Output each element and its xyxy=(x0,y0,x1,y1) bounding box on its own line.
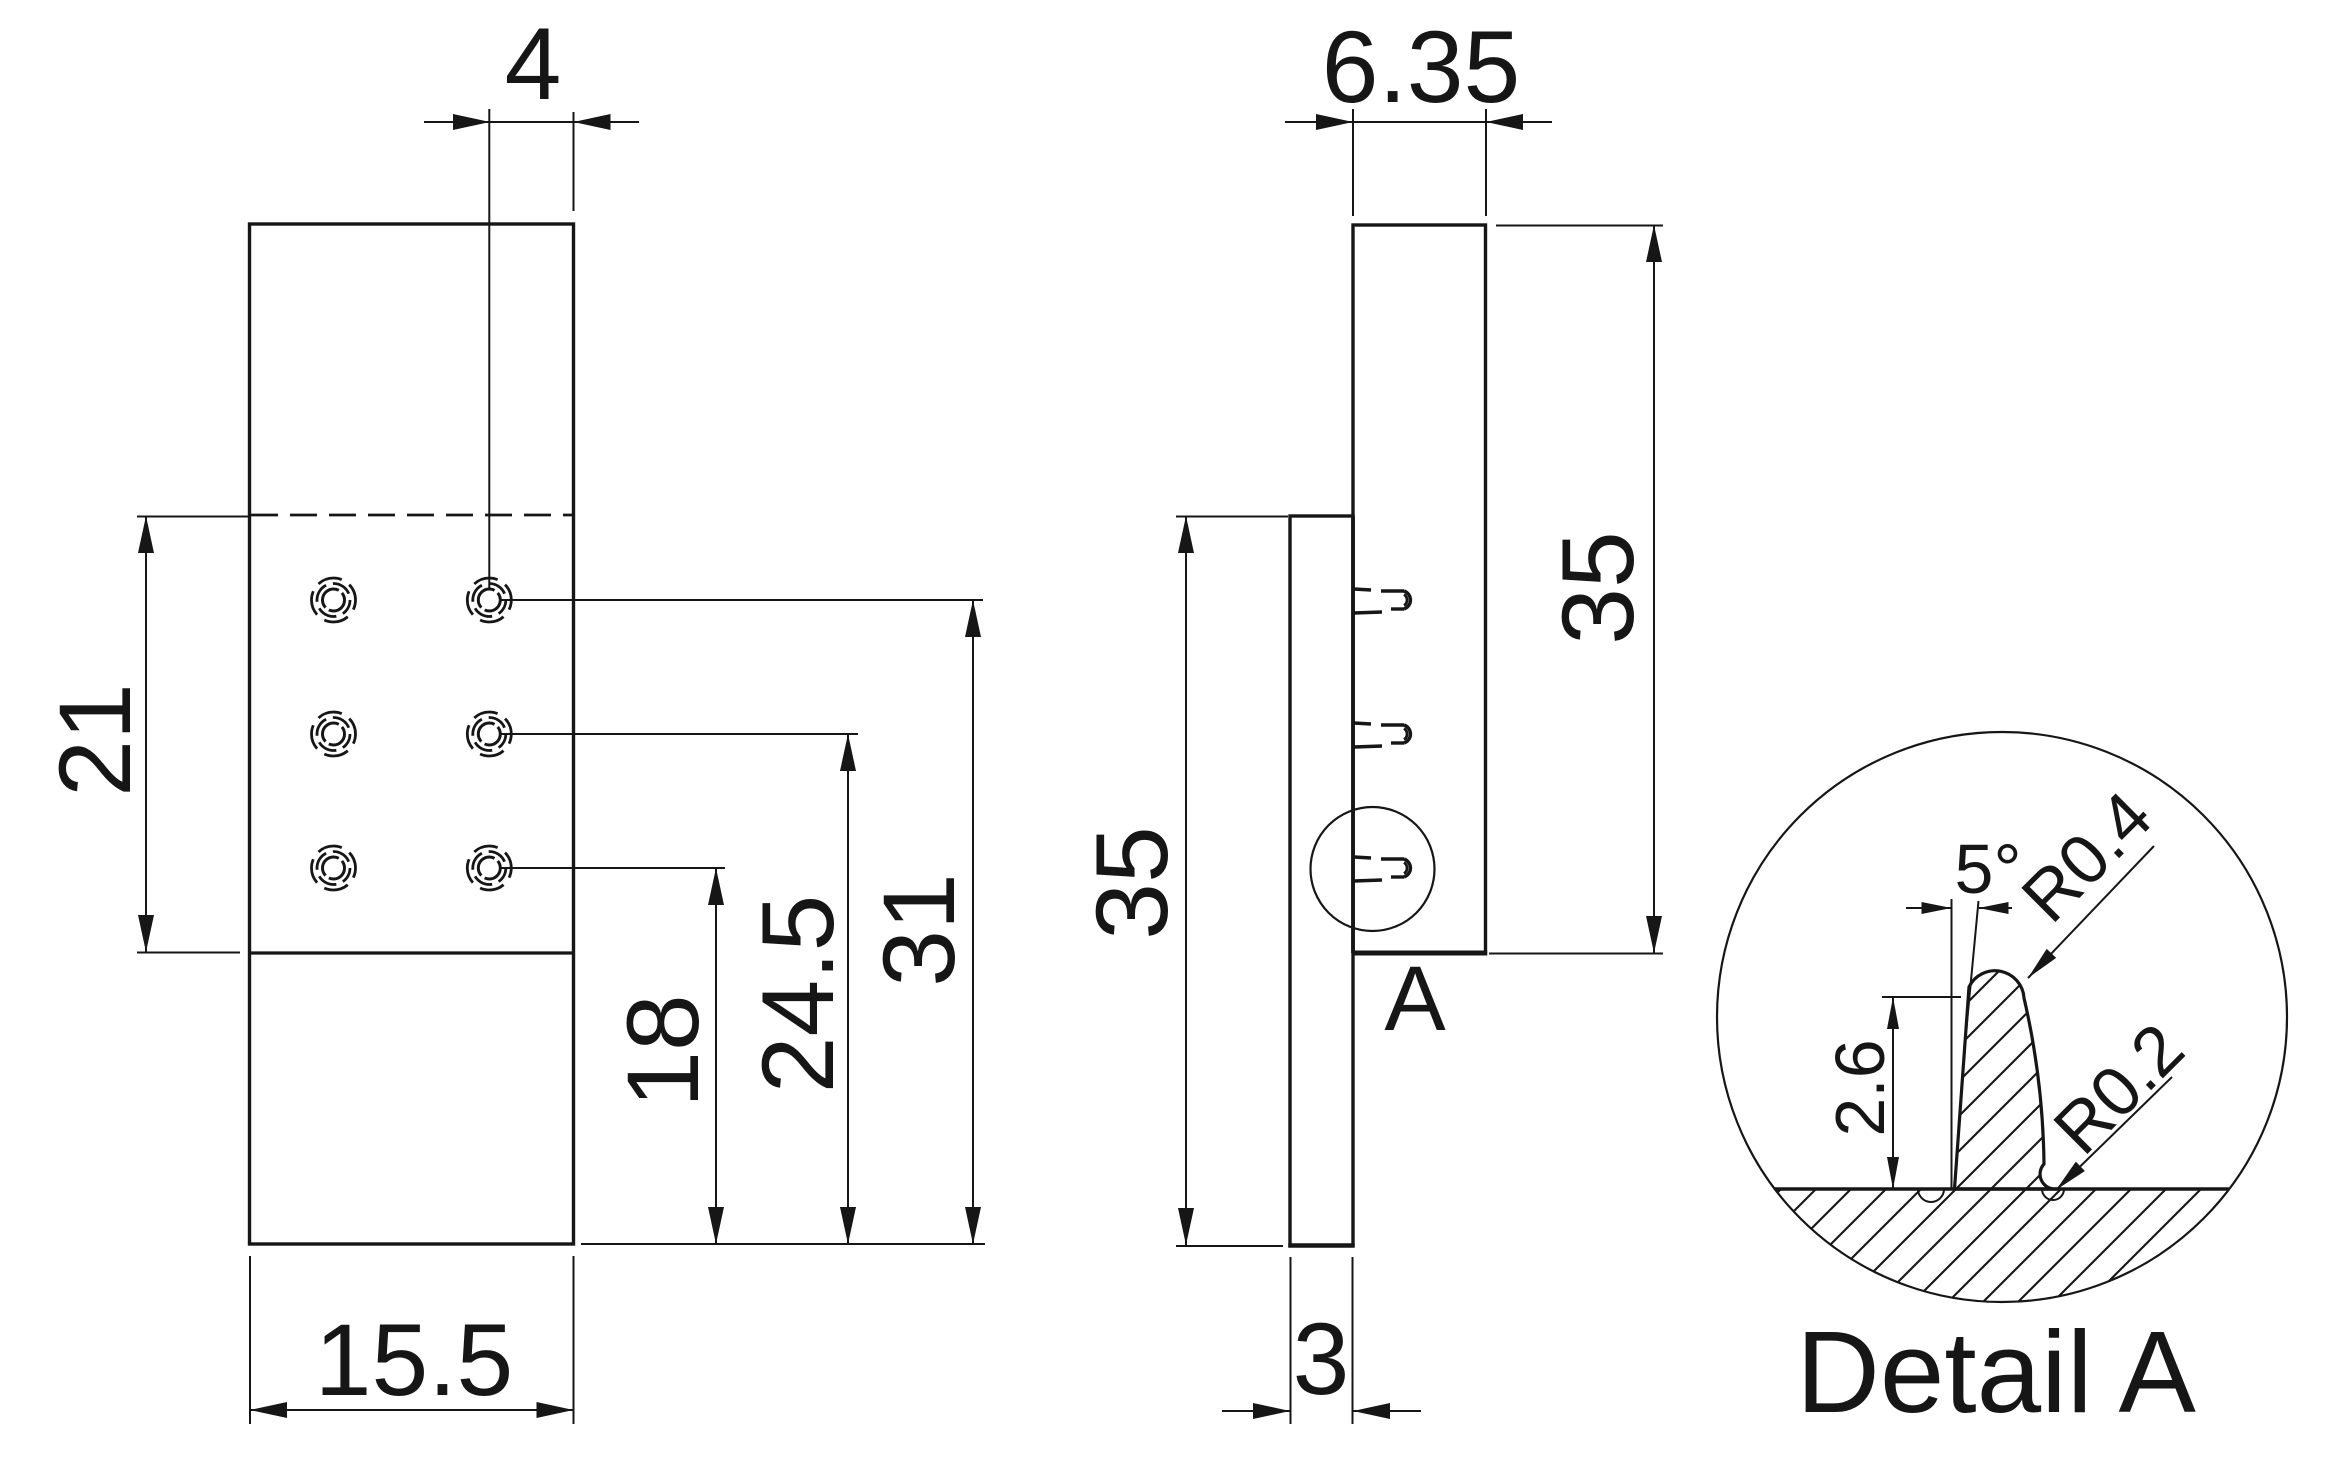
leader R0.4: line and arrow xyxy=(2028,846,2154,978)
dimension 2.6: extension line xyxy=(1882,996,1961,998)
left view: visible edge (bottom of slotted plate) xyxy=(251,951,572,954)
side view: slotted plate (6.35 thick) outline xyxy=(1353,225,1486,953)
hole H3 (row2 col1) xyxy=(312,712,356,756)
svg-text:4: 4 xyxy=(505,7,562,121)
detail A: base fillet bump left xyxy=(1918,1189,1944,1202)
svg-text:5°: 5° xyxy=(1955,830,2022,908)
dimension 15.5: extension lines xyxy=(250,1256,574,1424)
detail A: tooth profile outline xyxy=(1955,971,2058,1189)
leader R0.2: text xyxy=(2039,1009,2199,1169)
svg-text:35: 35 xyxy=(1541,531,1655,644)
hole H5 (row3 col1) xyxy=(312,846,356,890)
detail label A xyxy=(1384,948,1446,1050)
dimension 35 right: text xyxy=(1541,531,1655,644)
hole H2 (row1 col2) xyxy=(467,578,511,622)
dimension 2.6: line and arrows xyxy=(1887,997,1899,1189)
dimension 3: text xyxy=(1293,1302,1350,1416)
dimension 6.35: text xyxy=(1322,10,1521,124)
leader row2 to dim 24.5 xyxy=(500,733,858,735)
hole H1 (row1 col1) xyxy=(312,578,356,622)
dimension 15.5: line and arrows xyxy=(250,1402,574,1418)
detail A: base fillet bump right (R0.2) xyxy=(2042,1189,2064,1200)
dimension 35 left: extension lines xyxy=(1176,517,1288,1247)
detail A: vertical reference line for 5 deg xyxy=(1951,899,1953,1189)
leader R0.2: line and arrow xyxy=(2056,1077,2172,1190)
svg-text:Detail A: Detail A xyxy=(1796,1307,2196,1437)
dimension 6.35: extension lines xyxy=(1353,109,1486,216)
dimension 21: extension lines xyxy=(137,517,249,953)
detail indicator circle around tooth T3 xyxy=(1311,807,1435,931)
side view: barbed plate bottom edge (thick) xyxy=(1288,1243,1354,1248)
detail A: caption xyxy=(1796,1307,2196,1437)
svg-text:A: A xyxy=(1384,948,1446,1050)
detail A: inclined flank extension line for 5 deg xyxy=(1967,901,1979,1028)
side view: slotted plate left edge over barb zone xyxy=(1351,516,1355,953)
dimension 35 left: line and arrows xyxy=(1178,516,1194,1245)
side view: slotted plate bottom edge (thick) xyxy=(1351,951,1487,956)
left view: hidden edge (top of barbed plate, dashed) xyxy=(251,514,572,517)
barb tooth T2 xyxy=(1354,723,1410,747)
left view: front plate outline xyxy=(250,224,574,1244)
svg-text:35: 35 xyxy=(1075,826,1189,939)
hole H4 (row2 col2) xyxy=(467,712,511,756)
extension line right edge for dim 4 xyxy=(573,112,575,211)
svg-text:6.35: 6.35 xyxy=(1322,10,1521,124)
dimension 18: text xyxy=(606,994,720,1107)
dimension 18: line and arrows xyxy=(708,868,724,1244)
dimension 5deg: line and arrows xyxy=(1906,902,2012,914)
barb tooth T1 xyxy=(1354,589,1410,613)
detail A: plate surface line (ground) xyxy=(1775,1187,2229,1190)
detail A: enclosing circle xyxy=(1717,732,2287,1302)
bottom reference extension line xyxy=(581,1243,985,1245)
svg-text:21: 21 xyxy=(38,683,152,796)
svg-text:15.5: 15.5 xyxy=(315,1303,514,1417)
dimension 35 left: text xyxy=(1075,826,1189,939)
svg-text:31: 31 xyxy=(862,873,976,986)
centerline through hole column for dim 4 xyxy=(488,109,490,589)
dimension 21: text xyxy=(38,683,152,796)
detail A: section hatching (material cross-section) xyxy=(1570,940,2335,1330)
side view: barbed plate (3 thick) outline xyxy=(1290,516,1353,1246)
dimension 4: text xyxy=(505,7,562,121)
leader row3 to dim 18 xyxy=(500,867,725,869)
leader row1 to dim 31 xyxy=(500,599,983,601)
dimension 4: line and arrows xyxy=(424,114,639,130)
dimension 31: text xyxy=(862,873,976,986)
svg-text:24.5: 24.5 xyxy=(741,895,855,1094)
dimension 15.5: text xyxy=(315,1303,514,1417)
dimension 35 right: line and arrows xyxy=(1646,225,1662,953)
dimension 3: line and arrows xyxy=(1222,1403,1421,1419)
svg-text:2.6: 2.6 xyxy=(1821,1039,1899,1136)
dimension 31: line and arrows xyxy=(965,600,981,1244)
dimension 2.6: text xyxy=(1821,1039,1899,1136)
svg-text:18: 18 xyxy=(606,994,720,1107)
dimension 3: extension lines xyxy=(1291,1257,1353,1424)
dimension 24.5: line and arrows xyxy=(840,734,856,1244)
dimension 21: line and arrows xyxy=(138,516,154,952)
dimension 24.5: text xyxy=(741,895,855,1094)
dimension 6.35: line and arrows xyxy=(1285,114,1552,130)
svg-text:3: 3 xyxy=(1293,1302,1350,1416)
dimension 35 right: extension lines xyxy=(1489,226,1663,954)
hole H6 (row3 col2) xyxy=(467,846,511,890)
leader R0.4: text xyxy=(2007,777,2167,937)
barb tooth T3 xyxy=(1354,857,1410,881)
dimension 5deg: text xyxy=(1955,830,2022,908)
